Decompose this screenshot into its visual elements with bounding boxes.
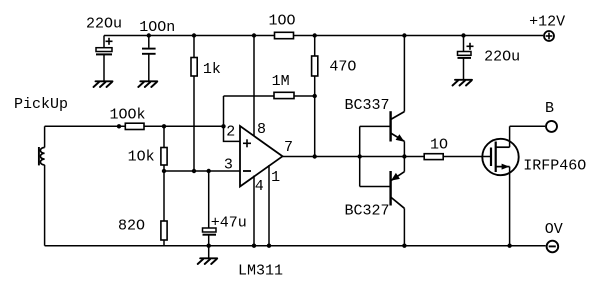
wire pin2 drop and lead bbox=[224, 126, 241, 141]
ground (under 47u at rail) bbox=[198, 246, 218, 264]
node rail/100n (top) bbox=[147, 33, 151, 37]
terminal +12V bbox=[544, 31, 554, 41]
wire 1M right segment bbox=[294, 95, 315, 97]
ground (under 100n) bbox=[138, 81, 157, 87]
svg-text:PickUp: PickUp bbox=[14, 96, 68, 113]
svg-text:B: B bbox=[545, 100, 554, 117]
wire pickup to 100k bbox=[45, 125, 126, 127]
svg-text:1O: 1O bbox=[430, 136, 448, 153]
node output/emitters bbox=[402, 154, 406, 158]
node input dot bbox=[117, 124, 121, 128]
wire NPN base lead bbox=[360, 125, 391, 127]
capacitor C2 100n bbox=[142, 36, 156, 81]
svg-text:BC337: BC337 bbox=[345, 97, 390, 114]
wire drain to B terminal bbox=[510, 125, 545, 127]
svg-text:BC327: BC327 bbox=[345, 203, 390, 220]
ground (under right 220u) bbox=[453, 80, 473, 86]
svg-text:1OOn: 1OOn bbox=[139, 19, 175, 36]
node pin3/10k bbox=[162, 169, 166, 173]
wire 10 to gate bbox=[443, 156, 491, 158]
svg-text:82O: 82O bbox=[118, 217, 145, 234]
svg-text:1: 1 bbox=[271, 169, 280, 186]
wire op-amp pin 1 bbox=[268, 165, 270, 246]
wire 100k to pin2 corner bbox=[144, 125, 224, 127]
wire top rail left of 100 resistor bbox=[104, 35, 275, 37]
svg-text:1Ok: 1Ok bbox=[128, 149, 155, 166]
resistor R3 100 (top rail series) bbox=[275, 32, 294, 38]
svg-text:1OO: 1OO bbox=[269, 13, 296, 30]
svg-text:7: 7 bbox=[284, 139, 293, 156]
svg-text:22Ou: 22Ou bbox=[86, 15, 122, 32]
svg-text:+47u: +47u bbox=[211, 215, 247, 232]
resistor R8 10 bbox=[424, 154, 443, 160]
svg-text:2: 2 bbox=[226, 124, 235, 141]
wire 1M left segment bbox=[224, 95, 275, 97]
op-amp minus sign bbox=[243, 170, 251, 172]
node output/bases bbox=[358, 154, 362, 158]
resistor R1 100k bbox=[125, 123, 144, 129]
node rail/BC337 collector (top) bbox=[402, 33, 406, 37]
wire PNP base lead bbox=[360, 186, 391, 188]
node rail/pin8 (top) bbox=[252, 33, 256, 37]
node rail/47u bbox=[207, 244, 211, 248]
resistor R4 470 bbox=[312, 36, 318, 157]
op-amp plus sign bbox=[243, 139, 251, 147]
svg-text:47O: 47O bbox=[329, 58, 356, 75]
resistor R2 1k bbox=[191, 36, 197, 172]
node rail/470 (top) bbox=[313, 33, 317, 37]
terminal 0V bbox=[547, 241, 559, 253]
inductor L1 pickup coil bbox=[39, 126, 45, 245]
node pin3/1k bbox=[192, 169, 196, 173]
svg-text:OV: OV bbox=[545, 221, 563, 238]
node rail/1k (top) bbox=[192, 33, 196, 37]
transistor Q1 BC337 (NPN) bbox=[391, 36, 405, 157]
wire base node vertical bbox=[359, 126, 361, 186]
node rail/220u right (top) bbox=[461, 33, 465, 37]
node rail/pin1 bbox=[267, 244, 271, 248]
node feedback/pin2 bbox=[221, 124, 225, 128]
0V minus sign bbox=[549, 245, 556, 247]
resistor R6 820 bbox=[161, 171, 167, 246]
svg-text:LM311: LM311 bbox=[238, 263, 283, 280]
node 10k top bbox=[162, 124, 166, 128]
svg-text:8: 8 bbox=[257, 121, 266, 138]
resistor R7 1M bbox=[274, 92, 294, 98]
terminal B bbox=[546, 121, 557, 132]
node rail/pin4 bbox=[252, 244, 256, 248]
svg-text:22Ou: 22Ou bbox=[484, 49, 520, 66]
node 1M/470 bbox=[313, 94, 317, 98]
wire top rail right of 100 resistor bbox=[294, 35, 544, 37]
ground (under left 220u) bbox=[94, 81, 113, 87]
node rail/source bbox=[507, 244, 511, 248]
svg-text:1k: 1k bbox=[203, 61, 221, 78]
node rail/BC327 collector bbox=[402, 244, 406, 248]
op-amp U1 LM311 triangle bbox=[240, 126, 283, 187]
capacitor C1 220u (left electrolytic) bbox=[96, 36, 113, 81]
svg-text:4: 4 bbox=[255, 178, 264, 195]
wire pin3 rail bbox=[164, 170, 240, 172]
svg-text:3: 3 bbox=[224, 156, 233, 173]
wire feedback vertical bbox=[223, 96, 225, 126]
resistor R5 10k bbox=[161, 126, 167, 171]
svg-text:1M: 1M bbox=[272, 73, 290, 90]
wire output pin 7 bbox=[283, 156, 425, 158]
node pin3/47u bbox=[207, 169, 211, 173]
capacitor C4 47u electrolytic bbox=[203, 171, 217, 246]
capacitor C3 220u (right electrolytic) bbox=[458, 36, 474, 80]
wire op-amp pin 8 to rail bbox=[253, 36, 255, 137]
svg-text:+12V: +12V bbox=[529, 14, 565, 31]
transistor Q3 IRFP460 (N-MOSFET) bbox=[482, 126, 518, 245]
svg-text:1OOk: 1OOk bbox=[110, 106, 146, 123]
svg-text:IRFP46O: IRFP46O bbox=[523, 158, 586, 175]
wire op-amp pin 4 bbox=[253, 176, 255, 246]
transistor Q2 BC327 (PNP) bbox=[391, 157, 405, 246]
node output/470 bbox=[313, 154, 317, 158]
wire bottom rail bbox=[45, 245, 546, 247]
